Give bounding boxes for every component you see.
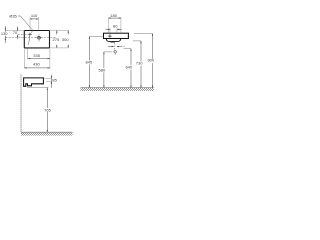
svg-text:430: 430	[33, 61, 40, 66]
dim 300 line	[67, 30, 69, 48]
tap hole cross plan	[28, 33, 32, 37]
580 stub	[104, 51, 112, 53]
dim 580 line	[103, 52, 105, 88]
O35 leader line	[18, 16, 33, 45]
tap hole cross front	[108, 34, 111, 37]
floor hatch right	[81, 88, 154, 91]
dim 900 line	[152, 34, 154, 88]
svg-text:80: 80	[113, 23, 118, 28]
dim 180 line	[109, 17, 121, 19]
basin front rect	[104, 33, 129, 38]
right extension lines	[50, 30, 68, 48]
drain width arrows	[108, 46, 114, 48]
floor line right	[81, 87, 154, 89]
drain outlet diamond	[114, 50, 117, 53]
dim 80 ext lines	[110, 28, 117, 33]
svg-text:275: 275	[53, 37, 60, 42]
floor line left	[21, 131, 73, 133]
dim 640 line	[130, 49, 132, 88]
dashed centreline drain	[5, 37, 56, 39]
svg-text:640: 640	[125, 64, 132, 69]
dim 80 line	[105, 28, 121, 30]
svg-text:765: 765	[44, 107, 51, 112]
845 stub	[89, 35, 103, 37]
bottom extension lines	[24, 49, 50, 69]
svg-text:335: 335	[33, 53, 40, 58]
730 stub	[133, 40, 141, 42]
dim 180 ext lines	[109, 17, 121, 33]
svg-text:900: 900	[147, 58, 154, 63]
floor hatch left	[21, 132, 73, 135]
900 stub	[134, 33, 153, 35]
dim 85 line	[51, 75, 53, 88]
dim 130 line	[4, 26, 6, 43]
dim 110 extension lines	[30, 17, 38, 30]
dim 845 line	[88, 36, 90, 87]
svg-text:Ø35: Ø35	[9, 13, 17, 18]
left extension of top edge	[5, 29, 24, 31]
bowl under rect	[106, 39, 121, 42]
svg-text:85: 85	[52, 77, 57, 82]
svg-text:300: 300	[62, 37, 69, 42]
svg-text:580: 580	[99, 68, 106, 73]
svg-text:130: 130	[1, 31, 8, 36]
dim 765 line	[46, 88, 48, 133]
dim 335 line	[28, 58, 50, 60]
drain stub solid	[111, 41, 115, 43]
640 stub	[124, 48, 132, 50]
svg-text:845: 845	[86, 60, 93, 65]
dim 110 line	[30, 18, 38, 20]
svg-text:70: 70	[13, 30, 18, 35]
basin profile side	[24, 78, 44, 86]
svg-text:180: 180	[110, 13, 117, 18]
drain circle plan	[38, 36, 41, 39]
svg-text:730: 730	[136, 61, 143, 66]
dashed centreline tap	[18, 34, 28, 36]
basin outline plan	[24, 31, 49, 48]
dim 85 ext lines	[44, 78, 51, 81]
svg-text:110: 110	[31, 13, 38, 18]
dim 70 line	[17, 26, 19, 39]
wall dotted line	[20, 75, 22, 132]
dim 275 line	[56, 30, 58, 48]
765 reference line	[27, 87, 48, 89]
dashed drain centreline front	[114, 43, 116, 50]
dim 430 line plan	[24, 67, 50, 69]
dim 730 line	[140, 41, 142, 88]
